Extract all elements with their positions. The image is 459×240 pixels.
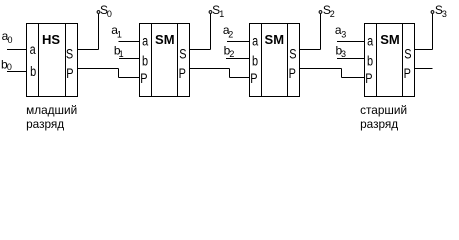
svg-text:SM: SM	[380, 32, 400, 47]
title SM of U2	[155, 32, 175, 47]
wire a2 input	[227, 41, 250, 43]
terminal node S0	[97, 11, 100, 14]
wire b2 input	[226, 58, 250, 60]
svg-text:S: S	[179, 46, 186, 62]
svg-text:2: 2	[228, 29, 233, 39]
terminal node S2	[319, 11, 322, 14]
label b1	[114, 43, 124, 58]
full-adder U4 body (SM)	[365, 24, 415, 97]
label S1	[212, 3, 224, 19]
svg-text:2: 2	[229, 49, 234, 59]
svg-text:P: P	[289, 66, 296, 82]
wire U1 P output to U2 P input	[78, 69, 140, 78]
svg-text:0: 0	[7, 62, 12, 72]
svg-text:разряд: разряд	[360, 117, 398, 131]
label S0	[100, 3, 112, 19]
full-adder U2 body (SM)	[140, 24, 190, 97]
svg-text:a: a	[142, 33, 148, 49]
svg-text:2: 2	[330, 9, 335, 19]
svg-text:старший: старший	[360, 103, 407, 117]
svg-text:b: b	[142, 53, 148, 69]
svg-text:3: 3	[341, 29, 346, 39]
svg-text:b: b	[367, 53, 373, 69]
svg-text:b: b	[30, 64, 36, 80]
title HS of U1	[42, 32, 60, 47]
svg-text:SM: SM	[155, 32, 175, 47]
svg-text:a: a	[252, 33, 258, 49]
wire U1 S output to node S0	[78, 14, 99, 50]
full-adder U3 body (SM)	[250, 24, 300, 97]
terminal node S3	[431, 11, 434, 14]
wire a3 input	[337, 41, 365, 43]
label b2	[224, 43, 235, 58]
svg-text:P: P	[250, 71, 257, 87]
label a2	[223, 23, 233, 39]
svg-text:0: 0	[8, 35, 13, 45]
svg-text:0: 0	[107, 9, 112, 19]
wire U4 P carry output	[415, 68, 433, 70]
svg-text:P: P	[404, 66, 411, 82]
svg-text:S: S	[66, 46, 73, 62]
label a3	[335, 23, 346, 39]
svg-text:SM: SM	[265, 32, 285, 47]
svg-text:младший: младший	[26, 103, 77, 117]
label a1	[111, 23, 122, 39]
svg-text:3: 3	[442, 9, 447, 19]
label S2	[323, 3, 335, 19]
wire b3 input	[337, 58, 365, 60]
label b3	[336, 43, 347, 58]
svg-text:3: 3	[341, 49, 346, 59]
pins of all adders (condensed)	[30, 33, 412, 86]
wire U3 P output to U4 P input	[300, 69, 365, 78]
wire U3 S output to node S2	[300, 14, 321, 50]
wire a0 input	[7, 49, 27, 51]
caption: least significant bit	[26, 103, 77, 131]
svg-text:1: 1	[117, 29, 122, 39]
terminal node S1	[209, 11, 212, 14]
wire b1 input	[119, 58, 140, 60]
svg-text:a: a	[30, 42, 36, 58]
svg-text:P: P	[66, 66, 73, 82]
svg-text:HS: HS	[42, 32, 60, 47]
svg-text:P: P	[365, 71, 372, 87]
caption: most significant bit	[360, 103, 407, 131]
svg-text:S: S	[289, 46, 296, 62]
label b0	[1, 57, 12, 72]
label a0	[2, 29, 13, 45]
wire b0 input	[7, 71, 27, 73]
title SM of U4	[380, 32, 400, 47]
wire U2 P output to U3 P input	[190, 69, 250, 78]
svg-text:P: P	[140, 71, 147, 87]
wire U2 S output to node S1	[190, 14, 211, 50]
title SM of U3	[265, 32, 285, 47]
half-adder U1 body (HS)	[27, 24, 78, 97]
wire U4 S output to node S3	[415, 14, 433, 50]
svg-text:P: P	[179, 66, 186, 82]
svg-text:1: 1	[219, 9, 224, 19]
svg-text:b: b	[252, 53, 258, 69]
label S3	[435, 3, 447, 19]
svg-text:1: 1	[119, 49, 124, 59]
svg-text:S: S	[404, 46, 411, 62]
svg-text:a: a	[367, 33, 373, 49]
svg-text:разряд: разряд	[26, 117, 64, 131]
wire a1 input	[119, 41, 140, 43]
